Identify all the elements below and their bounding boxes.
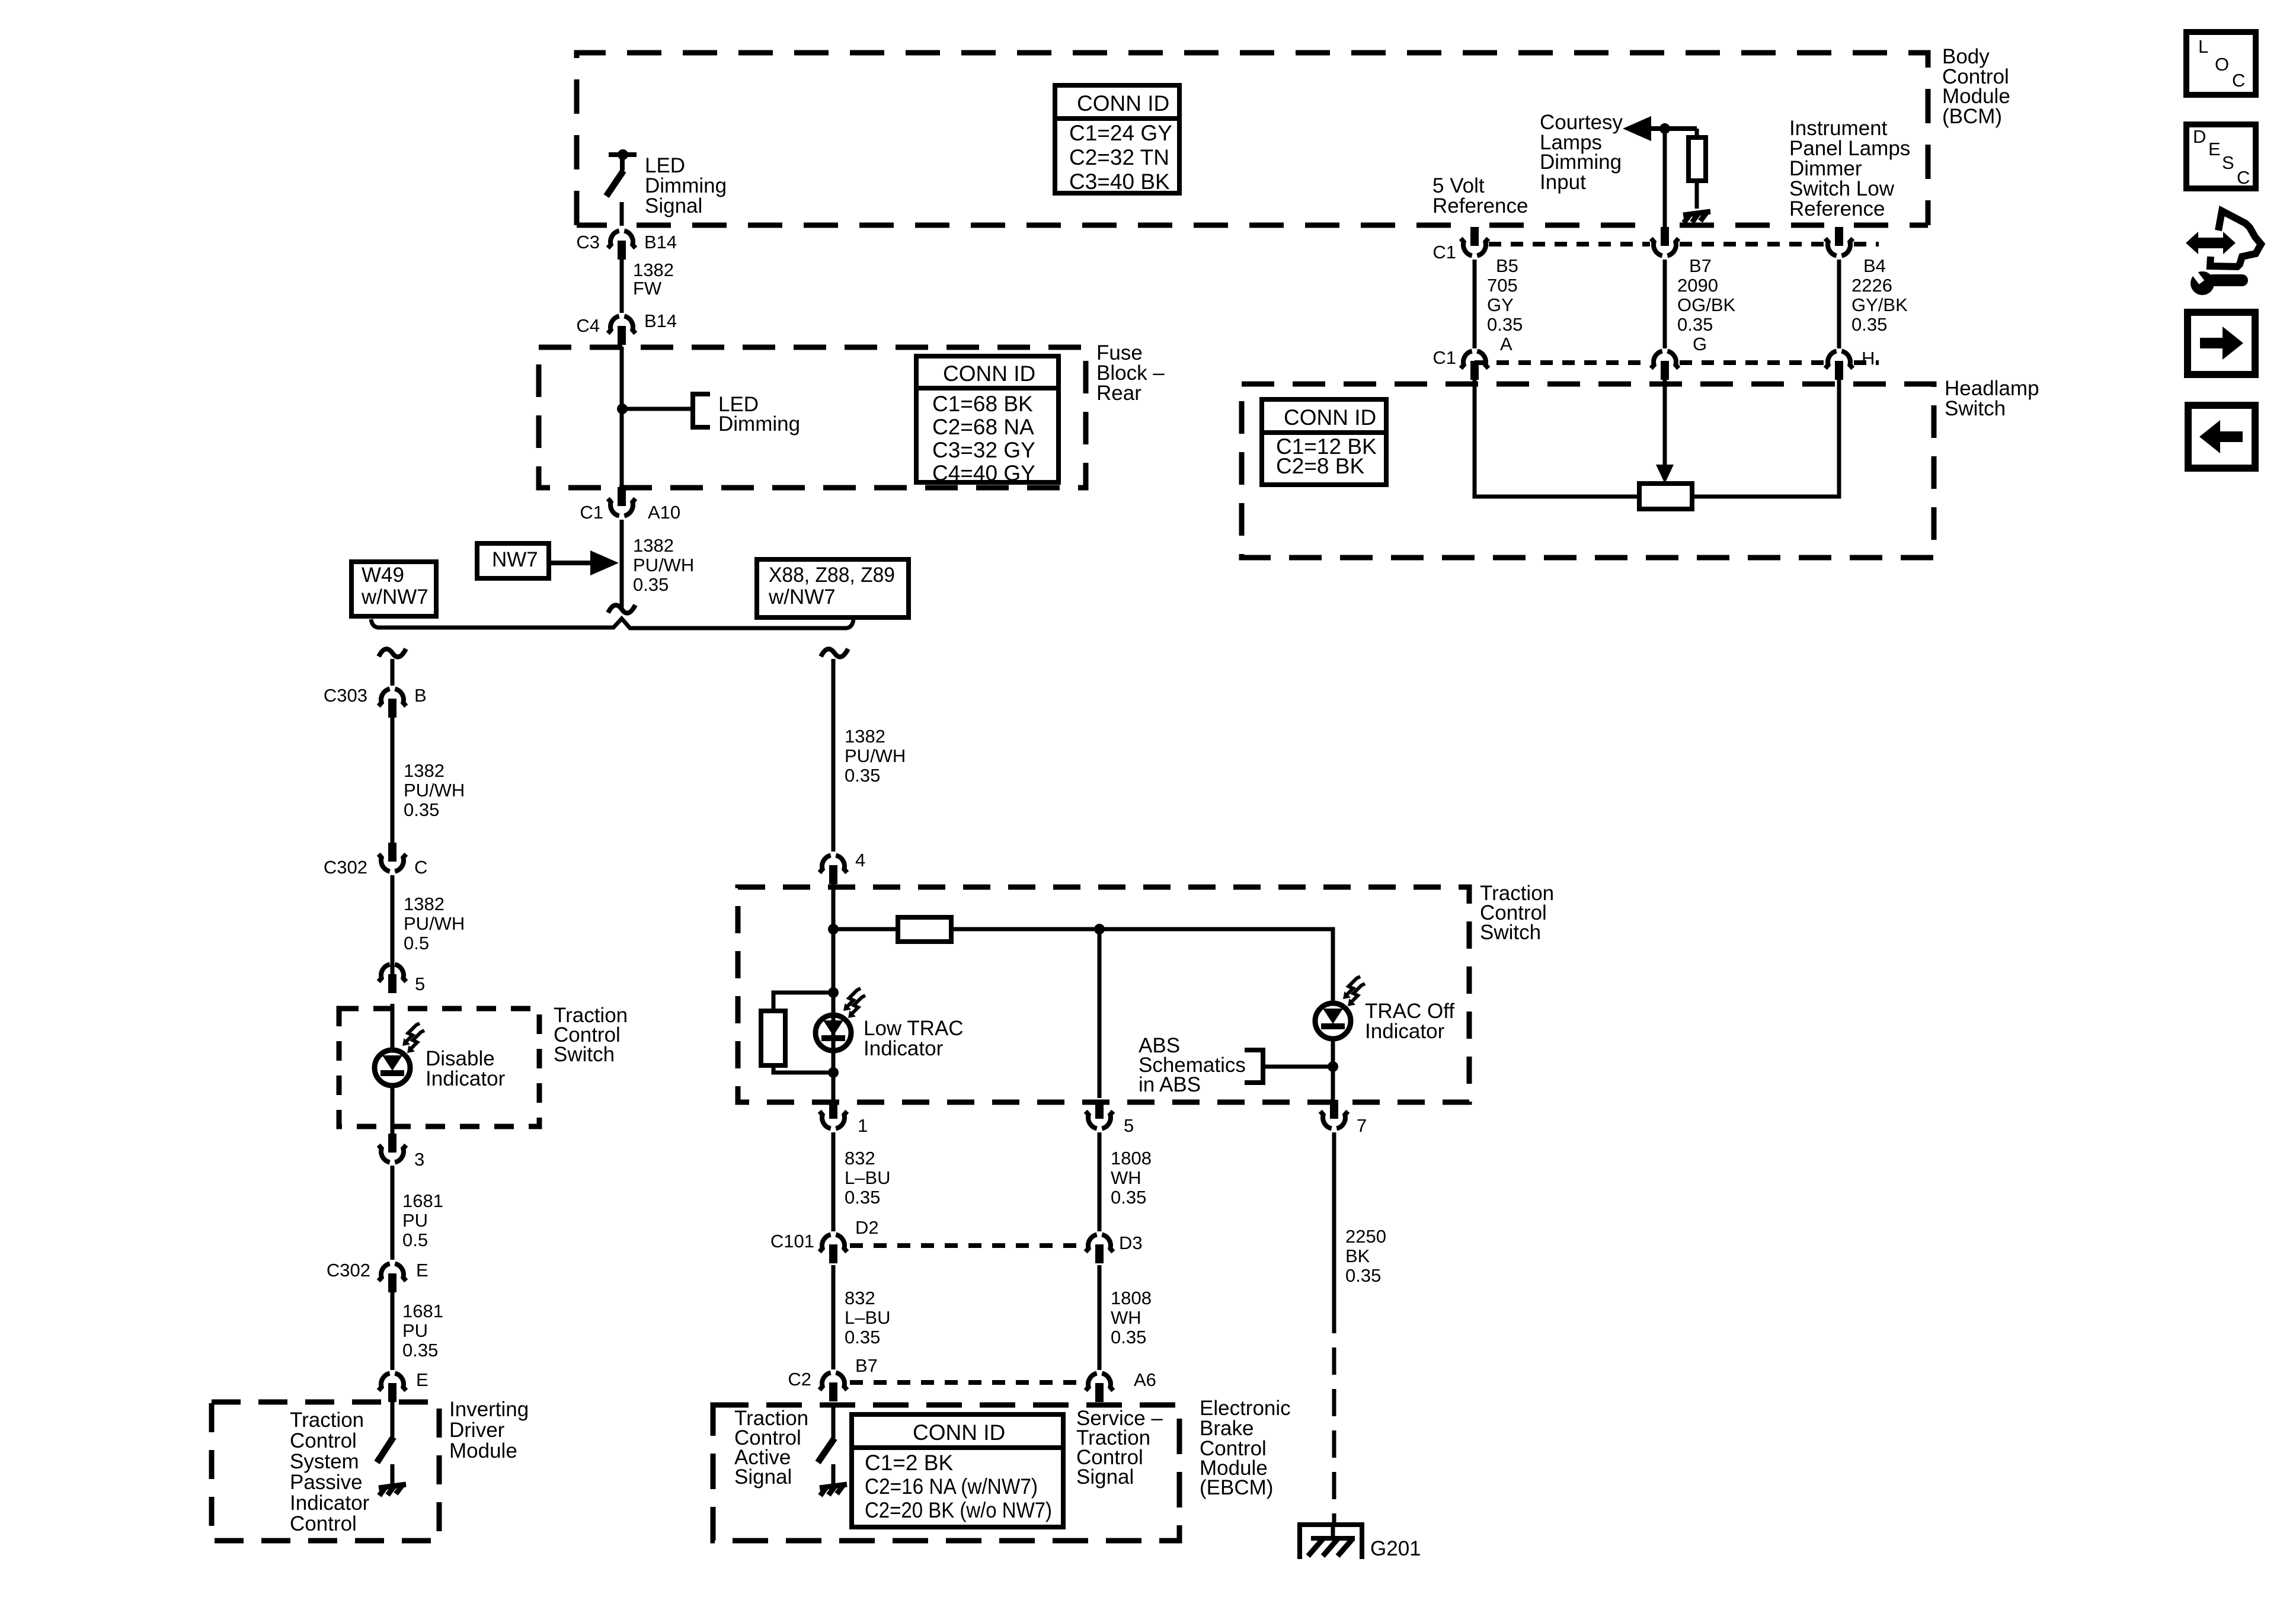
CONN ID table (Headlamp Switch): [1262, 399, 1386, 485]
connector B4 (BCM side): [1825, 227, 1886, 276]
svg-text:CONN ID: CONN ID: [1077, 91, 1169, 116]
wire LED to node: [832, 994, 836, 1073]
svg-text:0.35: 0.35: [845, 1327, 880, 1347]
resistor (Low TRAC parallel): [761, 1011, 785, 1065]
svg-text:0.35: 0.35: [1111, 1327, 1146, 1347]
wire 1808 WH 0.35 (lower): [1098, 1265, 1102, 1370]
svg-text:1382: 1382: [633, 260, 674, 280]
LED Dimming terminal bracket: [693, 394, 710, 427]
svg-text:D: D: [2193, 126, 2206, 147]
wire 1808 WH 0.35 (upper): [1098, 1132, 1102, 1231]
LED dimming signal switch (inside BCM): [606, 149, 637, 226]
svg-text:1808: 1808: [1111, 1148, 1152, 1169]
connector C303 B: [324, 685, 427, 718]
svg-text:Dimming: Dimming: [718, 412, 800, 436]
svg-text:C2=32 TN: C2=32 TN: [1069, 145, 1169, 169]
svg-text:1808: 1808: [1111, 1288, 1152, 1308]
resistor (BCM courtesy pull-up): [1689, 129, 1706, 209]
svg-text:Indicator: Indicator: [1365, 1020, 1445, 1043]
Low TRAC indicator LED: [816, 988, 865, 1051]
svg-text:0.35: 0.35: [404, 799, 439, 820]
connector row C2/A6 dotted line: [850, 1380, 1085, 1385]
svg-text:E: E: [416, 1369, 428, 1390]
svg-text:CONN ID: CONN ID: [943, 361, 1035, 386]
connector C1 A10: [580, 487, 680, 523]
connector 4 (TCS): [820, 850, 866, 884]
Instrument Panel Lamps Dimmer Switch Low Reference label: [1789, 117, 1910, 220]
svg-text:1382: 1382: [845, 726, 885, 747]
connector C3 B14: [576, 231, 677, 260]
wire to series resistor: [833, 927, 898, 932]
connector C1 (5V ref, BCM side): [1432, 227, 1488, 263]
svg-text:D3: D3: [1119, 1233, 1143, 1253]
NW7 arrow: [549, 554, 613, 572]
courtesy lamps arrow: [1629, 120, 1697, 137]
svg-text:2226: 2226: [1851, 275, 1892, 296]
wire break squiggle above brace: [608, 605, 635, 613]
Traction Control Switch label (main): [1480, 882, 1554, 944]
splice brace (bus): [371, 619, 853, 628]
connector H (headlamp switch side): [1825, 348, 1875, 380]
svg-text:Control: Control: [290, 1512, 357, 1535]
svg-text:D2: D2: [855, 1217, 879, 1238]
svg-text:3: 3: [414, 1149, 424, 1170]
wire from C4 into fuse block: [620, 347, 624, 487]
connector 5 (EBCM branch): [1086, 1100, 1134, 1136]
svg-text:B7: B7: [1689, 255, 1712, 276]
svg-text:WH: WH: [1111, 1167, 1141, 1188]
connector row C101 dotted line: [850, 1243, 1085, 1248]
EBCM switch: [818, 1403, 834, 1484]
svg-text:0.35: 0.35: [1111, 1187, 1146, 1208]
connector 7: [1320, 1100, 1367, 1136]
svg-text:1681: 1681: [402, 1190, 443, 1211]
svg-text:Reference: Reference: [1432, 194, 1528, 217]
svg-text:1382: 1382: [404, 760, 445, 781]
svg-text:0.35: 0.35: [845, 765, 880, 786]
svg-text:PU/WH: PU/WH: [633, 555, 694, 575]
headlamp wire A leg: [1475, 379, 1639, 497]
svg-text:L–BU: L–BU: [845, 1167, 891, 1188]
right branch squiggle: [821, 649, 848, 657]
svg-text:0.35: 0.35: [845, 1187, 880, 1208]
wire to LED Dimming bracket: [622, 407, 693, 411]
Disable indicator LED: [375, 1023, 424, 1086]
DESC icon box: [2186, 124, 2256, 188]
svg-text:B14: B14: [644, 232, 677, 252]
svg-text:C302: C302: [324, 857, 367, 878]
svg-text:in ABS: in ABS: [1139, 1073, 1201, 1096]
svg-text:A6: A6: [1134, 1369, 1156, 1390]
svg-text:C1=24 GY: C1=24 GY: [1069, 121, 1172, 145]
svg-text:0.35: 0.35: [1677, 314, 1713, 335]
ABS Schematics in ABS label: [1139, 1034, 1246, 1096]
left branch wire: [391, 659, 395, 686]
TRAC Off Indicator label: [1365, 1000, 1454, 1043]
svg-text:2090: 2090: [1677, 275, 1718, 296]
junction node (courtesy tap): [1659, 123, 1670, 134]
svg-text:A10: A10: [648, 502, 680, 523]
svg-text:Signal: Signal: [645, 194, 702, 217]
svg-text:Indicator: Indicator: [290, 1491, 370, 1515]
svg-text:Reference: Reference: [1789, 197, 1885, 220]
svg-text:Signal: Signal: [1076, 1465, 1134, 1489]
connector D3: [1086, 1233, 1143, 1263]
junction node (5 branch): [1094, 924, 1105, 934]
svg-text:0.35: 0.35: [1851, 314, 1887, 335]
svg-text:C3=32 GY: C3=32 GY: [932, 438, 1035, 462]
chassis ground (EBCM): [820, 1484, 847, 1496]
svg-text:1: 1: [858, 1115, 868, 1136]
svg-text:7: 7: [1357, 1115, 1367, 1136]
svg-text:Indicator: Indicator: [864, 1037, 944, 1060]
X88, Z88, Z89 w/NW7 box: [757, 559, 909, 617]
svg-text:C3=40 BK: C3=40 BK: [1069, 169, 1170, 194]
forward arrow icon box: [2188, 312, 2255, 375]
BCM connector row dotted lines: [1475, 244, 1879, 363]
svg-text:W49: W49: [362, 564, 404, 587]
svg-text:0.35: 0.35: [633, 574, 669, 595]
headlamp wiper arrow wire: [1663, 379, 1667, 468]
svg-text:L–BU: L–BU: [845, 1307, 891, 1328]
svg-text:Control: Control: [290, 1429, 357, 1452]
svg-text:705: 705: [1487, 275, 1518, 296]
wire TRAC Off LED down: [1331, 1041, 1335, 1100]
NW7 option box: [477, 543, 549, 578]
Low TRAC Indicator label: [864, 1017, 964, 1060]
svg-text:C2=16 NA (w/NW7): C2=16 NA (w/NW7): [865, 1474, 1038, 1499]
headlamp wire H leg: [1692, 379, 1839, 497]
Headlamp Switch label: [1945, 377, 2039, 420]
connector G (headlamp switch side): [1651, 351, 1679, 380]
svg-text:X88, Z88, Z89: X88, Z88, Z89: [769, 564, 895, 587]
svg-text:CONN ID: CONN ID: [913, 1420, 1005, 1445]
svg-text:C2=68 NA: C2=68 NA: [932, 415, 1034, 439]
wire 1382 PU/WH 0.35 (right branch): [832, 659, 836, 852]
svg-text:Switch: Switch: [554, 1043, 615, 1066]
Traction Control System Passive Indicator Control label: [290, 1409, 370, 1535]
svg-text:B7: B7: [855, 1355, 878, 1376]
svg-text:FW: FW: [633, 278, 662, 299]
svg-text:C302: C302: [327, 1260, 370, 1281]
TRAC Off indicator LED: [1315, 977, 1365, 1039]
svg-text:Traction: Traction: [290, 1409, 364, 1432]
svg-text:G: G: [1693, 334, 1707, 354]
svg-text:B5: B5: [1496, 255, 1518, 276]
wire 1382 FW: [620, 260, 624, 313]
svg-text:System: System: [290, 1450, 359, 1473]
svg-text:B4: B4: [1863, 255, 1886, 276]
svg-text:C1: C1: [1432, 242, 1456, 263]
LED Dimming label (fuse block): [718, 393, 800, 436]
schematic navigation icon (connector face with arrow and wrench): [2186, 211, 2261, 295]
wire resistor to TRAC Off branch: [951, 929, 1333, 1001]
connector 1: [820, 1100, 868, 1136]
svg-text:2250: 2250: [1345, 1226, 1386, 1247]
svg-text:Switch: Switch: [1480, 921, 1541, 944]
svg-text:S: S: [2222, 152, 2234, 173]
Traction Control Active Signal label: [734, 1407, 808, 1489]
wire 1382 PU/WH 0.35 (left branch): [391, 718, 395, 843]
svg-text:C: C: [2237, 167, 2250, 188]
svg-text:PU: PU: [402, 1320, 428, 1341]
svg-text:GY: GY: [1487, 295, 1514, 315]
Inverting Driver Module label: [449, 1398, 529, 1462]
svg-text:C1=68 BK: C1=68 BK: [932, 392, 1033, 416]
svg-text:5: 5: [415, 974, 425, 994]
svg-text:E: E: [2208, 139, 2221, 159]
svg-text:832: 832: [845, 1148, 875, 1169]
LED Dimming Signal label: [645, 154, 727, 217]
svg-text:B: B: [414, 685, 427, 706]
svg-text:NW7: NW7: [492, 548, 538, 571]
svg-text:C101: C101: [770, 1231, 814, 1251]
wire ABS bracket to node: [1264, 1065, 1333, 1069]
connector C302 C: [324, 843, 428, 878]
wire 5 into disable indicator: [391, 1004, 395, 1049]
svg-text:Rear: Rear: [1096, 382, 1141, 405]
connector C302 E: [327, 1260, 428, 1292]
svg-text:C2=8 BK: C2=8 BK: [1276, 454, 1364, 478]
wire 5 branch down: [1098, 929, 1102, 1098]
Fuse Block - Rear dashed box: [539, 347, 1086, 488]
connector B7 (BCM side): [1651, 227, 1712, 276]
left branch squiggle: [379, 649, 406, 657]
Fuse Block - Rear label: [1096, 341, 1165, 405]
wire down to connector 1: [832, 1073, 836, 1100]
wire 832 L-BU 0.35 (upper): [832, 1132, 836, 1231]
svg-text:0.5: 0.5: [404, 933, 429, 953]
svg-text:C1=2 BK: C1=2 BK: [865, 1451, 953, 1475]
chassis ground (BCM internal): [1683, 212, 1710, 223]
series resistor (TCS): [898, 917, 951, 942]
svg-text:w/NW7: w/NW7: [768, 585, 836, 609]
wire 1681 PU 0.35: [391, 1292, 395, 1370]
connector C1 A (headlamp switch side): [1432, 347, 1488, 380]
svg-text:C4=40 GY: C4=40 GY: [932, 461, 1035, 485]
junction node (Low TRAC top): [828, 987, 839, 998]
svg-text:CONN ID: CONN ID: [1284, 405, 1376, 430]
svg-text:1382: 1382: [633, 535, 674, 556]
svg-text:PU: PU: [402, 1210, 428, 1231]
svg-text:0.35: 0.35: [402, 1340, 438, 1361]
Service - Traction Control Signal label: [1076, 1407, 1163, 1489]
Low TRAC parallel resistor wires: [773, 993, 833, 1073]
wire courtesy tap down through BCM border: [1663, 129, 1667, 228]
connector C101 D2: [770, 1217, 879, 1263]
svg-text:(EBCM): (EBCM): [1200, 1476, 1273, 1499]
svg-text:OG/BK: OG/BK: [1677, 295, 1736, 315]
svg-text:PU/WH: PU/WH: [404, 913, 465, 934]
wire 1382 PU/WH 0.35 below C1 A10: [620, 520, 624, 608]
Traction Control Switch dashed box (main): [738, 887, 1469, 1102]
svg-text:4: 4: [855, 850, 865, 870]
connector C2 B7: [788, 1355, 878, 1401]
IDM switch: [377, 1402, 394, 1484]
svg-text:Inverting: Inverting: [449, 1398, 529, 1421]
wire 4 into switch: [832, 881, 836, 993]
junction node (LED dimming tap): [617, 404, 628, 414]
wire 832 L-BU 0.35 (lower): [832, 1265, 836, 1369]
svg-text:0.35: 0.35: [1487, 314, 1523, 335]
svg-text:C1: C1: [1432, 347, 1456, 368]
ABS schematics bracket: [1245, 1050, 1263, 1083]
svg-text:832: 832: [845, 1288, 875, 1308]
wire 1681 PU 0.5: [391, 1166, 395, 1260]
svg-text:A: A: [1500, 334, 1512, 354]
svg-text:Driver: Driver: [449, 1419, 505, 1442]
svg-text:E: E: [416, 1260, 428, 1281]
svg-text:O: O: [2215, 54, 2229, 75]
connector C4 B14: [576, 311, 677, 345]
svg-text:Switch: Switch: [1945, 397, 2006, 420]
wire LED to connector 3: [391, 1087, 395, 1134]
wire 705 GY 0.35: [1473, 260, 1477, 348]
back arrow icon box: [2188, 405, 2255, 468]
W49 w/NW7 box: [351, 562, 436, 616]
svg-text:B14: B14: [644, 311, 677, 331]
svg-text:C2=20 BK (w/o NW7): C2=20 BK (w/o NW7): [865, 1498, 1052, 1522]
svg-text:H: H: [1862, 348, 1875, 369]
svg-text:G201: G201: [1370, 1537, 1421, 1560]
svg-text:Module: Module: [449, 1439, 517, 1462]
5 Volt Reference label: [1432, 174, 1528, 217]
connector E (IDM): [379, 1369, 428, 1402]
wire 1382 PU/WH 0.5: [391, 875, 395, 977]
wire 2226 GY/BK 0.35: [1837, 260, 1841, 348]
junction node (resistor tap): [828, 924, 839, 934]
svg-text:WH: WH: [1111, 1307, 1141, 1328]
svg-text:Signal: Signal: [734, 1465, 792, 1489]
Traction Control Switch dashed box (disable): [339, 1009, 539, 1126]
svg-text:C2: C2: [788, 1369, 811, 1390]
svg-text:C303: C303: [324, 685, 367, 706]
svg-text:5: 5: [1124, 1115, 1134, 1136]
svg-text:0.35: 0.35: [1345, 1265, 1381, 1286]
wire 2090 OG/BK 0.35: [1663, 260, 1667, 348]
svg-text:w/NW7: w/NW7: [361, 585, 428, 609]
connector 3: [379, 1134, 425, 1170]
svg-text:L: L: [2198, 36, 2208, 57]
connector A6: [1086, 1369, 1156, 1402]
EBCM dashed box: [713, 1405, 1179, 1541]
svg-text:PU/WH: PU/WH: [404, 780, 465, 801]
svg-text:C: C: [414, 857, 427, 878]
svg-text:(BCM): (BCM): [1942, 105, 2002, 128]
Traction Control Switch label (disable): [554, 1004, 628, 1066]
svg-text:Passive: Passive: [290, 1471, 363, 1494]
wire 2250 BK 0.35: [1332, 1132, 1336, 1333]
svg-text:PU/WH: PU/WH: [845, 745, 906, 766]
junction node (Low TRAC bottom): [828, 1067, 839, 1078]
BCM module dashed box: [577, 53, 1928, 225]
LOC icon box: [2186, 32, 2256, 95]
svg-text:1681: 1681: [402, 1301, 443, 1321]
svg-text:C1: C1: [580, 502, 603, 523]
BCM label: Body Control Module (BCM): [1942, 45, 2010, 128]
svg-text:BK: BK: [1345, 1246, 1370, 1266]
svg-text:C3: C3: [576, 232, 600, 252]
CONN ID table (Fuse Block): [916, 356, 1059, 485]
svg-text:Input: Input: [1540, 171, 1586, 194]
svg-text:Indicator: Indicator: [426, 1067, 506, 1090]
svg-text:1382: 1382: [404, 894, 445, 914]
Headlamp Switch dashed box: [1242, 384, 1934, 558]
svg-text:GY/BK: GY/BK: [1851, 295, 1908, 315]
chassis ground (IDM): [379, 1484, 406, 1496]
CONN ID table (EBCM): [852, 1414, 1063, 1527]
svg-text:C4: C4: [576, 315, 600, 336]
svg-text:C: C: [2232, 70, 2245, 91]
CONN ID table (BCM): [1055, 85, 1179, 194]
junction node (ABS join): [1328, 1061, 1338, 1072]
connector 5 (TCS left): [379, 965, 426, 995]
Disable Indicator label: [426, 1047, 506, 1090]
Courtesy Lamps Dimming Input label: [1540, 111, 1623, 194]
Inverting Driver Module dashed box: [212, 1402, 439, 1541]
potentiometer (headlamp dimmer): [1639, 484, 1692, 509]
svg-text:0.5: 0.5: [402, 1230, 428, 1250]
Electronic Brake Control Module (EBCM) label: [1200, 1397, 1291, 1499]
ground G201: [1300, 1522, 1421, 1560]
